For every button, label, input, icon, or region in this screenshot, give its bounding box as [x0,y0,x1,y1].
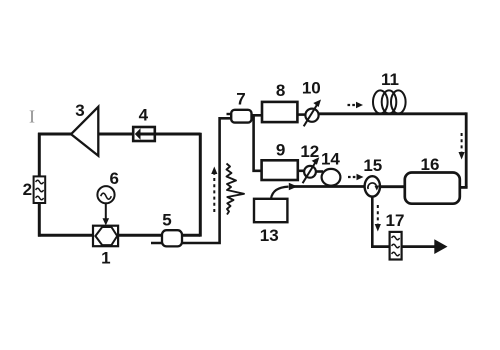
wire 8 to 10 [297,113,307,116]
wire right vertical down [465,112,468,187]
wire 9 to 12 [298,170,306,173]
svg-text:6: 6 [109,169,118,188]
dashed arrow right vertical [461,133,463,154]
svg-text:2: 2 [23,180,32,199]
svg-text:13: 13 [260,226,279,245]
wire branch down to 9 [254,115,263,171]
box 7 [231,110,251,123]
svg-text:16: 16 [421,155,440,174]
dashed arrow row2 [348,176,357,178]
svg-text:1: 1 [101,249,110,268]
box 8 [262,102,297,122]
wire ring top [38,133,201,136]
output arrowhead [434,239,447,254]
svg-text:I: I [29,107,35,127]
circulator 15 [365,176,380,196]
svg-text:3: 3 [75,101,84,120]
wire 7 to 8 [251,114,263,117]
wire ring bottom [38,234,200,237]
svg-text:8: 8 [276,81,285,100]
dashed down arrow below 15 [377,205,379,226]
wire 12 to 14 [315,170,323,173]
svg-text:11: 11 [381,70,399,89]
wire 15 to 16 [379,185,406,188]
fiber coil 11 [373,90,406,113]
filter 2 [34,176,46,203]
coupler 5 [162,230,182,246]
attenuator 10 [304,100,321,127]
svg-text:7: 7 [236,90,245,109]
component 14 [322,169,341,186]
svg-text:10: 10 [302,79,321,98]
oscillator 6 [97,186,114,225]
wire 15 down vertical [371,196,374,247]
svg-text:9: 9 [276,141,285,160]
isolator 4 [133,127,155,141]
filter 17 [390,232,402,260]
wire into 16 right side [458,186,468,189]
wire ring left vertical [38,133,41,237]
box 16 [405,173,460,204]
attenuator 12 [303,157,320,183]
pulse waveform [227,164,245,215]
curved arrow 13 to wire [271,183,298,199]
amplifier 3 [71,107,98,156]
svg-text:14: 14 [321,150,340,169]
dashed arrow row1 [348,104,357,106]
wire coupler tap stub [151,242,172,245]
wire box7 left stub [227,113,234,115]
svg-text:17: 17 [386,211,405,230]
wire bottom output [371,245,438,248]
svg-text:12: 12 [300,142,319,161]
wire ring right vertical [199,133,202,237]
svg-text:4: 4 [139,106,149,125]
modulator 1 [93,226,118,247]
wire 10 to right corner [318,112,467,115]
svg-text:15: 15 [363,156,382,175]
box 9 [262,160,298,180]
wire lower main to 15 [294,185,366,188]
dashed up arrow near node [213,172,215,212]
box 13 [254,199,287,222]
wire coupler tap to node [178,118,232,243]
svg-text:5: 5 [162,211,171,230]
